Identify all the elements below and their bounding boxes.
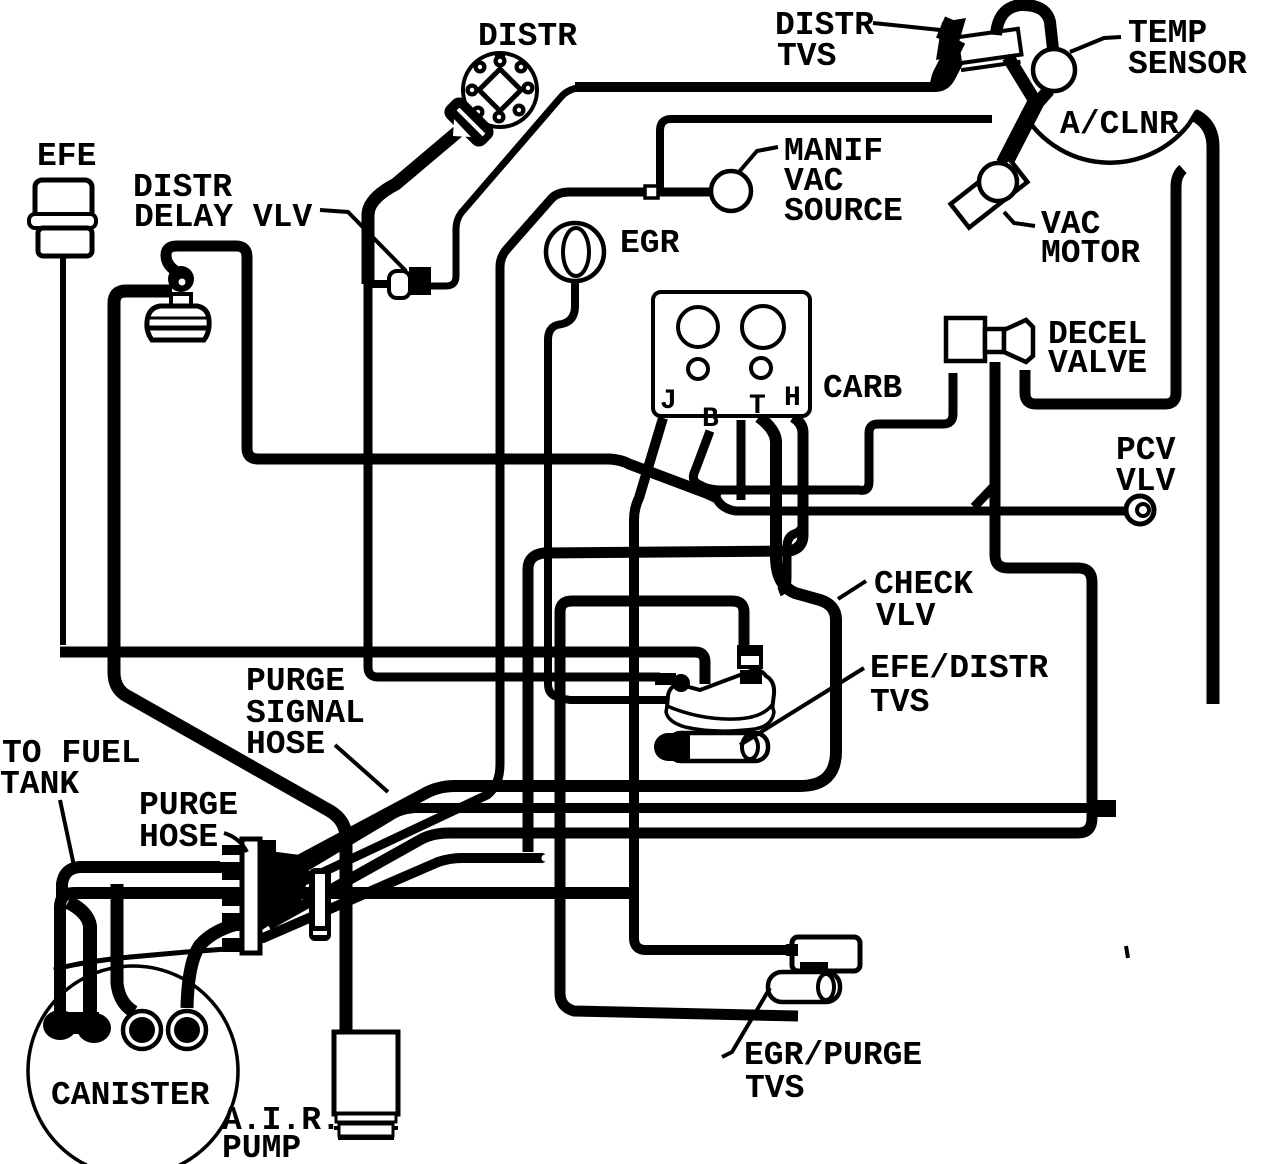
- svg-text:PUMP: PUMP: [222, 1130, 301, 1164]
- svg-text:CANISTER: CANISTER: [51, 1077, 210, 1114]
- svg-text:H: H: [784, 383, 801, 414]
- svg-text:T: T: [749, 391, 766, 422]
- svg-text:SOURCE: SOURCE: [784, 193, 903, 230]
- svg-text:TVS: TVS: [870, 684, 929, 721]
- svg-text:TANK: TANK: [0, 766, 79, 803]
- svg-text:EGR/PURGE: EGR/PURGE: [744, 1037, 922, 1074]
- svg-text:TVS: TVS: [745, 1070, 804, 1107]
- svg-text:TVS: TVS: [777, 38, 836, 75]
- svg-text:MOTOR: MOTOR: [1041, 235, 1140, 272]
- svg-text:EFE: EFE: [37, 138, 96, 175]
- svg-text:HOSE: HOSE: [139, 819, 218, 856]
- svg-text:J: J: [660, 386, 677, 417]
- svg-text:A/CLNR: A/CLNR: [1060, 106, 1179, 143]
- svg-text:HOSE: HOSE: [246, 726, 325, 763]
- svg-text:VALVE: VALVE: [1048, 345, 1147, 382]
- svg-text:SENSOR: SENSOR: [1128, 46, 1247, 83]
- svg-text:DELAY VLV: DELAY VLV: [134, 199, 312, 236]
- svg-text:DISTR: DISTR: [478, 18, 577, 55]
- svg-text:VLV: VLV: [876, 598, 936, 635]
- svg-text:EFE/DISTR: EFE/DISTR: [870, 650, 1048, 687]
- svg-text:EGR: EGR: [620, 225, 680, 262]
- svg-text:CARB: CARB: [823, 370, 902, 407]
- svg-text:VLV: VLV: [1116, 463, 1176, 500]
- svg-text:B: B: [702, 404, 719, 435]
